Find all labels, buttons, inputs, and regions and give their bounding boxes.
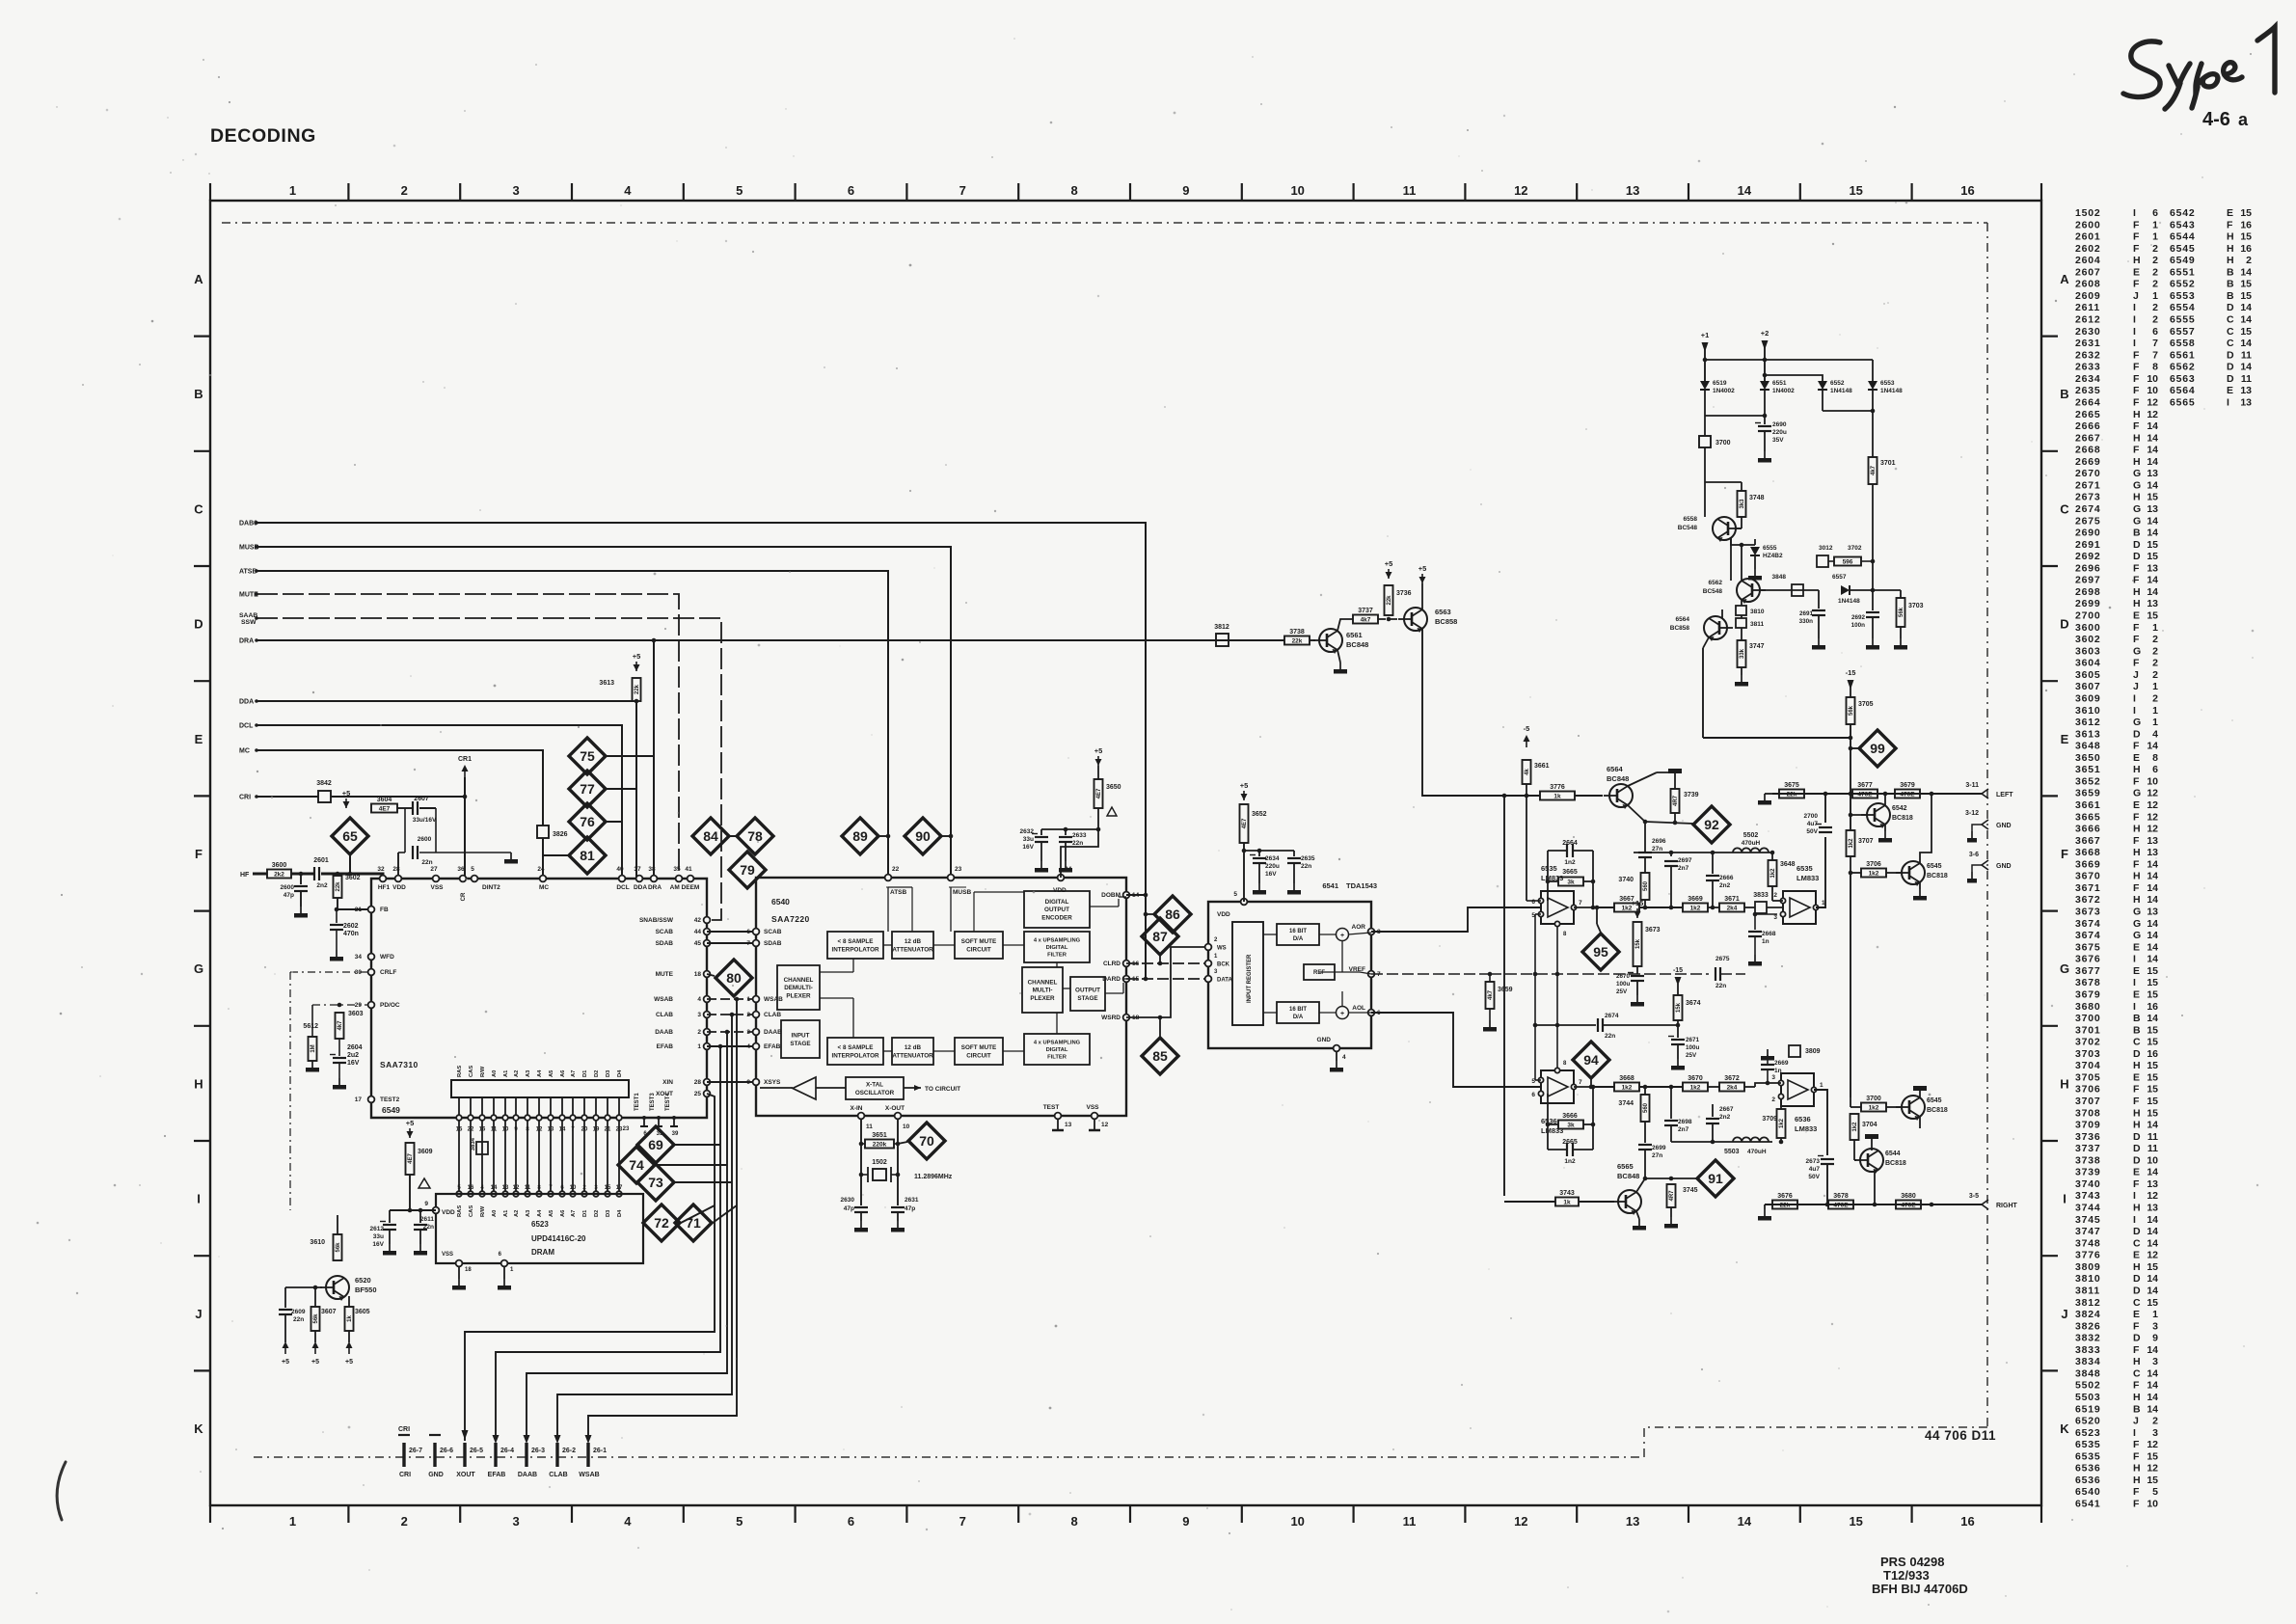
svg-text:XSYS: XSYS: [764, 1079, 781, 1086]
svg-text:41: 41: [685, 866, 692, 873]
svg-text:4k7: 4k7: [1871, 465, 1877, 475]
svg-text:4E7: 4E7: [1242, 818, 1248, 828]
svg-text:SSW: SSW: [241, 619, 257, 626]
svg-text:12 dB: 12 dB: [905, 938, 922, 945]
SAA7220 bottom VSS pin 12: [1092, 1113, 1098, 1120]
resistor 3748: [1738, 491, 1746, 517]
wire 3738 to 6561: [1310, 639, 1315, 641]
svg-text:11: 11: [491, 1127, 498, 1133]
capacitor 2608 22n: [404, 808, 406, 853]
svg-text:32: 32: [377, 866, 385, 873]
column tick top: [1129, 183, 1131, 201]
svg-text:RAS: RAS: [457, 1066, 463, 1077]
wire to 3670: [1639, 1086, 1683, 1088]
svg-text:B: B: [2133, 1013, 2141, 1024]
svg-text:2671: 2671: [2075, 479, 2101, 491]
svg-text:G: G: [2133, 479, 2141, 491]
svg-text:EFAB: EFAB: [657, 1043, 674, 1050]
supply +5 under 2609: [284, 1345, 286, 1354]
svg-text:BC858: BC858: [1670, 625, 1690, 632]
svg-text:12: 12: [2147, 1463, 2158, 1475]
svg-text:4u7: 4u7: [1809, 1166, 1821, 1173]
svg-text:+5: +5: [633, 652, 641, 661]
capacitor 2609 22n: [284, 1287, 286, 1308]
resistor 3826: [537, 826, 549, 838]
wire ATSB to SAA7220 pin 22: [257, 571, 888, 878]
wire 6564 emitter to 92 row: [1628, 805, 1645, 822]
svg-text:1: 1: [289, 1514, 296, 1529]
svg-text:70: 70: [919, 1133, 934, 1149]
svg-text:F: F: [2133, 775, 2140, 787]
svg-text:14: 14: [1738, 1514, 1752, 1529]
svg-text:6535: 6535: [2075, 1439, 2101, 1450]
svg-text:H: H: [2227, 243, 2234, 255]
column tick bottom: [1910, 1505, 1912, 1523]
svg-text:13: 13: [1626, 183, 1639, 198]
svg-text:13: 13: [2147, 503, 2158, 515]
svg-text:15: 15: [2147, 1475, 2158, 1486]
svg-text:330n: 330n: [1799, 618, 1814, 625]
svg-text:I: I: [197, 1192, 201, 1206]
svg-text:1N4148: 1N4148: [1838, 598, 1860, 605]
svg-text:1: 1: [2152, 717, 2158, 728]
resistor 3707 1k2: [1847, 830, 1855, 856]
row tick left: [194, 1255, 210, 1257]
svg-text:3671: 3671: [2075, 882, 2101, 894]
svg-text:75: 75: [580, 748, 595, 764]
svg-text:1: 1: [2152, 705, 2158, 717]
svg-text:2635: 2635: [1301, 855, 1315, 862]
wire 2608 rail to VSS ground: [419, 852, 511, 853]
svg-text:13: 13: [2240, 396, 2252, 408]
svg-text:7: 7: [959, 1514, 966, 1529]
svg-text:3652: 3652: [2075, 775, 2101, 787]
wire DDA to pin 37 with 3613 tap: [257, 701, 636, 878]
svg-text:+15: +15: [1632, 899, 1644, 907]
svg-text:F: F: [2133, 658, 2140, 669]
svg-text:2692: 2692: [1851, 614, 1866, 621]
svg-text:VSS: VSS: [442, 1252, 453, 1258]
svg-text:H: H: [2133, 764, 2141, 775]
svg-text:13: 13: [1065, 1122, 1072, 1128]
svg-text:H: H: [2133, 1261, 2141, 1273]
svg-text:D: D: [194, 617, 203, 632]
svg-text:MUSB: MUSB: [953, 889, 971, 896]
svg-text:13: 13: [2240, 385, 2252, 396]
svg-text:3604: 3604: [377, 797, 392, 803]
svg-text:1N4002: 1N4002: [1772, 388, 1795, 394]
svg-text:2: 2: [697, 1029, 701, 1036]
svg-text:25V: 25V: [1616, 988, 1628, 995]
IC 6549 SAA7310 outline: [371, 879, 707, 1118]
svg-text:+5: +5: [282, 1359, 289, 1366]
row tick left: [194, 680, 210, 682]
resistor 3811: [1736, 618, 1746, 628]
svg-text:3669: 3669: [2075, 858, 2101, 870]
svg-text:3675: 3675: [2075, 941, 2101, 953]
svg-text:14: 14: [2147, 1237, 2158, 1249]
svg-text:+5: +5: [406, 1119, 415, 1127]
diamond 89: [842, 818, 878, 854]
svg-text:8: 8: [537, 1185, 541, 1191]
svg-text:2699: 2699: [1652, 1145, 1666, 1151]
svg-text:2691: 2691: [2075, 539, 2101, 551]
svg-text:1: 1: [289, 183, 296, 198]
svg-text:6523: 6523: [2075, 1427, 2101, 1439]
svg-text:F: F: [2133, 373, 2140, 385]
svg-text:6554: 6554: [2170, 302, 2196, 313]
svg-text:D: D: [2227, 349, 2234, 361]
svg-text:14: 14: [2147, 941, 2158, 953]
svg-text:F: F: [2133, 445, 2140, 456]
svg-text:3: 3: [2152, 1356, 2158, 1367]
svg-text:16: 16: [2240, 243, 2252, 255]
SAA7220 X-IN pin 11: [858, 1113, 865, 1120]
svg-text:12: 12: [2147, 409, 2158, 420]
svg-text:99: 99: [1870, 741, 1885, 756]
svg-text:D: D: [2133, 1143, 2141, 1154]
svg-text:DCL: DCL: [616, 884, 629, 891]
block input register: [1232, 922, 1263, 1025]
svg-text:F: F: [2133, 858, 2140, 870]
svg-text:2698: 2698: [2075, 586, 2101, 598]
svg-text:6: 6: [2152, 764, 2158, 775]
svg-text:3745: 3745: [1683, 1187, 1698, 1194]
svg-text:D3: D3: [606, 1069, 611, 1077]
svg-text:2634: 2634: [1265, 855, 1280, 862]
svg-text:2600: 2600: [281, 884, 295, 891]
svg-text:2635: 2635: [2075, 385, 2101, 396]
svg-text:10: 10: [2147, 385, 2158, 396]
pen mark bottom left: [57, 1462, 66, 1520]
svg-text:G: G: [2060, 961, 2069, 976]
capacitor 2670 100u 25V: [1636, 966, 1638, 974]
svg-text:-15: -15: [1673, 967, 1683, 974]
svg-text:4: 4: [1342, 1054, 1346, 1061]
svg-text:22n: 22n: [421, 859, 432, 866]
wire 2607 to rail: [419, 807, 436, 809]
svg-text:3748: 3748: [1749, 495, 1765, 501]
svg-text:3610: 3610: [310, 1239, 325, 1246]
svg-text:11: 11: [2147, 1131, 2158, 1143]
svg-text:VDD: VDD: [1217, 911, 1230, 918]
svg-text:12: 12: [2147, 396, 2158, 408]
svg-text:3648: 3648: [2075, 741, 2101, 752]
svg-text:4E7: 4E7: [1096, 788, 1102, 798]
svg-text:XIN: XIN: [662, 1079, 673, 1086]
svg-text:4k7: 4k7: [338, 1020, 343, 1031]
svg-text:6551: 6551: [1772, 380, 1787, 387]
svg-text:G: G: [2133, 918, 2141, 930]
svg-text:26-7: 26-7: [409, 1448, 422, 1454]
svg-text:E: E: [2133, 1167, 2140, 1178]
svg-text:D2: D2: [594, 1070, 600, 1077]
svg-text:ATTENUATOR: ATTENUATOR: [892, 946, 933, 953]
connector pin 26-6 GND: [433, 1443, 436, 1467]
resistor 3678 470E: [1828, 1201, 1853, 1209]
svg-text:3703: 3703: [2075, 1048, 2101, 1060]
svg-text:6: 6: [2152, 207, 2158, 219]
svg-text:85: 85: [1152, 1048, 1168, 1064]
summing node lower: [1337, 1007, 1349, 1019]
svg-text:13: 13: [1626, 1514, 1639, 1529]
svg-text:29: 29: [355, 1002, 363, 1009]
pcb boundary dash-dot right: [1986, 223, 1988, 1427]
svg-text:81: 81: [580, 848, 595, 863]
resistor 3669 1k2: [1683, 904, 1708, 912]
svg-text:I: I: [2133, 314, 2136, 326]
svg-text:14: 14: [2147, 1214, 2158, 1226]
svg-text:BCK: BCK: [1217, 962, 1230, 968]
svg-text:SNAB/SSW: SNAB/SSW: [639, 917, 674, 924]
svg-text:3-6: 3-6: [1969, 852, 1979, 858]
pcb boundary dash-dot bottom connector line: [254, 1456, 1644, 1458]
wire opamp1 out: [1593, 907, 1614, 908]
svg-text:2675: 2675: [1715, 956, 1730, 962]
svg-text:3: 3: [1773, 914, 1777, 921]
svg-text:DIGITAL: DIGITAL: [1046, 1047, 1068, 1053]
svg-text:2611: 2611: [2075, 302, 2100, 313]
resistor 3648 1k2: [1769, 860, 1777, 886]
svg-text:2633: 2633: [2075, 362, 2101, 373]
svg-text:F: F: [2133, 1499, 2140, 1510]
svg-text:4E7: 4E7: [379, 805, 391, 812]
svg-text:BF550: BF550: [355, 1286, 377, 1294]
block 12dB attenuator lower: [892, 1038, 933, 1065]
svg-text:3674: 3674: [2075, 930, 2101, 941]
svg-text:3700: 3700: [1866, 1096, 1881, 1102]
diamond 87: [1142, 918, 1178, 955]
svg-text:2: 2: [2152, 255, 2158, 266]
svg-text:6536: 6536: [1795, 1115, 1811, 1123]
svg-text:I: I: [2133, 705, 2136, 717]
svg-text:2608: 2608: [2075, 279, 2101, 290]
svg-text:a: a: [2238, 110, 2249, 129]
svg-text:7: 7: [746, 940, 750, 947]
SAA7220 left pins: [753, 929, 760, 935]
block REF: [1304, 964, 1335, 980]
capacitor 2600 47p: [300, 874, 302, 884]
svg-text:7: 7: [1579, 1079, 1582, 1086]
svg-text:3674: 3674: [2075, 918, 2101, 930]
IC 6523 UPD41416C-20 DRAM outline: [436, 1194, 643, 1263]
svg-text:2690: 2690: [2075, 528, 2101, 539]
svg-text:F: F: [2133, 1380, 2140, 1392]
svg-text:3-12: 3-12: [1965, 810, 1979, 817]
svg-text:18: 18: [465, 1267, 472, 1273]
resistor 3842: [318, 791, 331, 802]
svg-text:3668: 3668: [2075, 847, 2101, 858]
svg-text:< 8 SAMPLE: < 8 SAMPLE: [838, 1044, 874, 1051]
svg-text:11: 11: [2147, 1143, 2158, 1154]
svg-text:2607: 2607: [2075, 266, 2101, 278]
svg-text:3671: 3671: [1724, 896, 1740, 903]
IC 6541 TDA1543 outline: [1208, 902, 1371, 1048]
svg-text:1k: 1k: [1563, 1199, 1571, 1205]
svg-text:BC818: BC818: [1892, 815, 1913, 822]
svg-text:8: 8: [1070, 183, 1077, 198]
svg-text:VDD: VDD: [442, 1209, 455, 1216]
svg-text:3k: 3k: [1567, 1122, 1575, 1128]
svg-text:D: D: [2133, 728, 2141, 740]
svg-text:B: B: [2133, 1024, 2141, 1036]
capacitor 2668 1n: [1753, 912, 1758, 917]
svg-text:9: 9: [2152, 1333, 2158, 1344]
svg-text:74: 74: [629, 1157, 644, 1173]
svg-text:INTERPOLATOR: INTERPOLATOR: [831, 946, 879, 953]
svg-text:2699: 2699: [2075, 598, 2101, 609]
svg-text:3673: 3673: [1645, 927, 1661, 934]
svg-text:14: 14: [2147, 1013, 2158, 1024]
svg-text:2674: 2674: [1605, 1013, 1619, 1019]
svg-text:G: G: [2133, 468, 2141, 479]
transistor 6565 BC848: [1618, 1190, 1641, 1213]
svg-text:27n: 27n: [1652, 846, 1662, 853]
wire 6565 emitter: [1636, 1211, 1639, 1219]
svg-text:3826: 3826: [553, 831, 568, 838]
svg-text:F: F: [2133, 1096, 2140, 1107]
svg-text:2631: 2631: [2075, 338, 2101, 349]
wire WSAB link: [707, 998, 756, 1000]
row tick left: [194, 565, 210, 567]
svg-text:D: D: [2133, 1048, 2141, 1060]
svg-text:15k: 15k: [1635, 938, 1641, 949]
svg-text:16: 16: [2240, 219, 2252, 230]
wire 6564 collector to rail bar: [1628, 772, 1657, 786]
svg-text:4 x UPSAMPLING: 4 x UPSAMPLING: [1034, 937, 1081, 943]
svg-text:10: 10: [1290, 1514, 1304, 1529]
svg-text:2u2: 2u2: [347, 1052, 359, 1059]
wire SDAB: [707, 942, 756, 944]
wire 6563 emitter down long: [1422, 629, 1540, 796]
wire XOUT staircase: [465, 1094, 715, 1441]
svg-text:14: 14: [2147, 515, 2158, 527]
svg-text:56k: 56k: [336, 1242, 341, 1253]
svg-text:4u7: 4u7: [1807, 821, 1819, 827]
svg-text:A3: A3: [526, 1069, 531, 1077]
svg-text:14: 14: [559, 1127, 566, 1133]
svg-text:3739: 3739: [1684, 792, 1699, 798]
row tick left: [194, 1025, 210, 1027]
svg-text:5: 5: [1233, 891, 1237, 898]
wire opamp4 out down: [1814, 1090, 1827, 1155]
svg-text:100u: 100u: [1616, 981, 1631, 988]
connector pin 26-4 EFAB: [494, 1443, 497, 1467]
svg-text:J: J: [2133, 290, 2139, 302]
svg-text:14: 14: [2147, 1403, 2158, 1415]
transistor 6564 BC858 upper: [1704, 616, 1727, 639]
resistor 3700R 1k2: [1861, 1103, 1886, 1112]
svg-text:CHANNEL: CHANNEL: [1028, 980, 1058, 987]
svg-text:33u: 33u: [1023, 836, 1034, 843]
TEST pins of SAA7310: [642, 1116, 646, 1120]
svg-text:1: 1: [2152, 622, 2158, 634]
svg-text:1n: 1n: [1774, 1068, 1782, 1074]
wire MUSB to SAA7220 pin 23: [257, 547, 951, 878]
svg-text:C: C: [2133, 1367, 2141, 1379]
capacitor 2692 100n: [1872, 609, 1874, 610]
svg-text:44 706 D11: 44 706 D11: [1925, 1428, 1996, 1443]
svg-text:3812: 3812: [2075, 1297, 2101, 1309]
svg-text:10: 10: [570, 1185, 577, 1191]
svg-text:A4: A4: [537, 1209, 543, 1217]
svg-text:4: 4: [624, 183, 632, 198]
svg-text:-5: -5: [1524, 724, 1530, 733]
column tick top: [1017, 183, 1019, 201]
svg-text:2602: 2602: [343, 923, 359, 930]
svg-text:2: 2: [401, 183, 408, 198]
svg-text:6561: 6561: [2170, 349, 2196, 361]
ground for 2604: [338, 1063, 340, 1078]
TDA1543 VDD pin 5: [1241, 899, 1248, 906]
svg-text:14: 14: [2240, 266, 2252, 278]
svg-text:A1: A1: [503, 1069, 509, 1077]
capacitor 2604 2u2 16V: [338, 1039, 340, 1056]
svg-text:3680: 3680: [2075, 1001, 2101, 1013]
svg-text:14: 14: [2240, 314, 2252, 326]
svg-text:13: 13: [548, 1127, 554, 1133]
svg-text:2630: 2630: [841, 1197, 855, 1204]
svg-text:8: 8: [526, 1127, 529, 1133]
svg-text:R/W: R/W: [480, 1066, 486, 1077]
svg-text:3605: 3605: [355, 1309, 370, 1315]
opamp 6536 first half: [1541, 1070, 1574, 1103]
svg-text:14: 14: [2240, 362, 2252, 373]
svg-text:3739: 3739: [2075, 1167, 2101, 1178]
svg-text:OSCILLATOR: OSCILLATOR: [855, 1090, 895, 1096]
svg-text:3648: 3648: [1780, 861, 1796, 868]
svg-text:3: 3: [2152, 1427, 2158, 1439]
svg-text:2: 2: [2152, 266, 2158, 278]
svg-text:OUTPUT: OUTPUT: [1044, 907, 1069, 913]
svg-text:H: H: [2133, 1392, 2141, 1403]
svg-text:14: 14: [2147, 1344, 2158, 1356]
block sample interpolator upper: [827, 932, 883, 959]
svg-text:6563: 6563: [2170, 373, 2196, 385]
svg-text:STAGE: STAGE: [790, 1041, 810, 1047]
resistor 3602 22k: [334, 876, 342, 898]
svg-text:3743: 3743: [2075, 1190, 2101, 1202]
ground left of 3676: [1764, 1204, 1766, 1209]
svg-text:D4: D4: [617, 1209, 623, 1217]
svg-text:2700: 2700: [1804, 813, 1819, 820]
svg-text:I: I: [2133, 326, 2136, 338]
svg-text:3703: 3703: [1908, 603, 1924, 609]
svg-text:2631: 2631: [905, 1197, 919, 1204]
svg-text:13: 13: [2147, 1203, 2158, 1214]
svg-text:4: 4: [480, 1185, 484, 1191]
svg-text:F: F: [2133, 279, 2140, 290]
transistor 6562 BC548: [1737, 579, 1760, 602]
svg-text:FILTER: FILTER: [1047, 1055, 1067, 1061]
wire DARD to DATA: [1126, 978, 1208, 980]
svg-text:28: 28: [694, 1079, 702, 1086]
resistor 3676 22k: [1772, 1201, 1797, 1209]
diode 6519 1N4002: [1700, 381, 1710, 390]
svg-text:AM DEEM: AM DEEM: [670, 884, 700, 891]
IC 6540 SAA7220 outline: [756, 878, 1126, 1116]
svg-text:OUTPUT: OUTPUT: [1075, 988, 1100, 994]
capacitor 2674 22n: [1535, 1024, 1596, 1026]
svg-text:I: I: [2133, 954, 2136, 965]
column tick bottom: [1017, 1505, 1019, 1523]
svg-text:DAAB: DAAB: [518, 1472, 537, 1478]
svg-text:H: H: [2133, 871, 2141, 882]
svg-text:5: 5: [736, 1514, 743, 1529]
column tick top: [1576, 183, 1578, 201]
svg-text:2671: 2671: [1686, 1037, 1700, 1043]
svg-text:10: 10: [2147, 775, 2158, 787]
